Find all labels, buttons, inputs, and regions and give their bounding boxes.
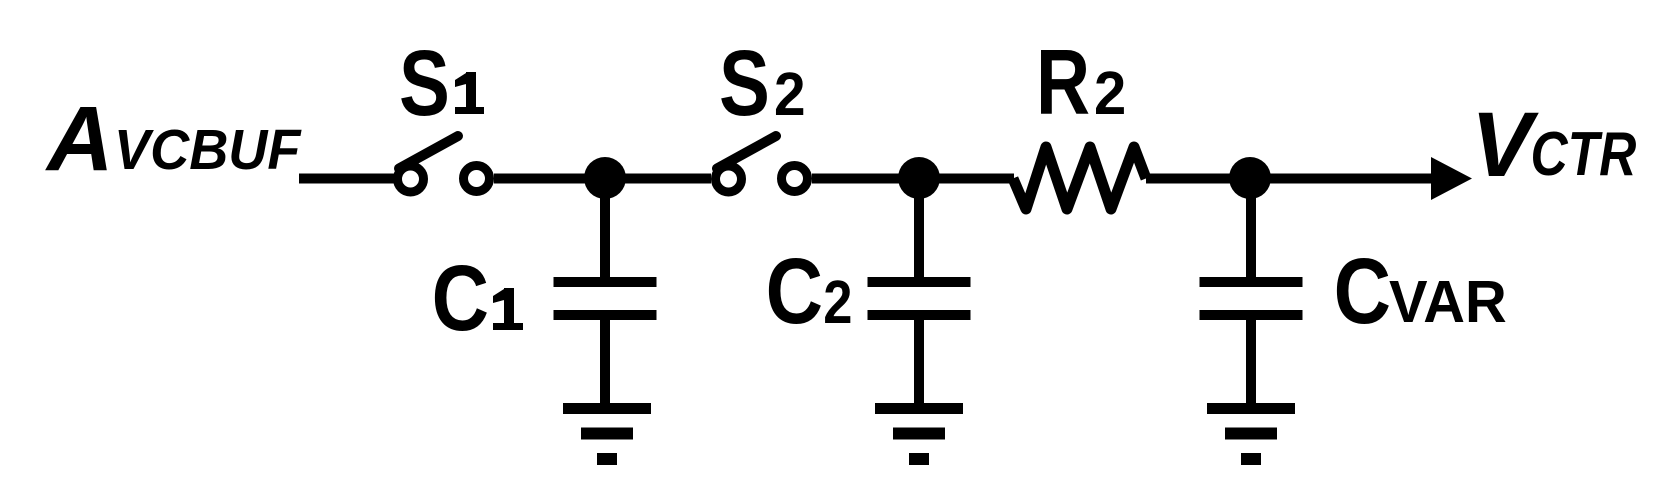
svg-text:2: 2 (823, 268, 852, 337)
node A_VCBUF label (45, 88, 302, 190)
wire node 3 down to capacitor CVAR (1246, 178, 1256, 279)
svg-text:A: A (45, 88, 113, 190)
wire from R2 to output arrow through node 3 (1146, 174, 1445, 184)
label CVAR (1334, 240, 1507, 343)
label S2 (719, 32, 806, 136)
svg-text:S: S (399, 32, 450, 136)
switch S2 (716, 136, 808, 192)
svg-text:C: C (432, 247, 489, 350)
label S1 (399, 32, 484, 136)
svg-text:VAR: VAR (1389, 269, 1507, 335)
svg-text:S: S (719, 32, 770, 136)
svg-text:C: C (1334, 240, 1391, 343)
svg-text:C: C (766, 240, 823, 343)
node 1 junction dot (584, 157, 626, 199)
output arrowhead (1431, 157, 1472, 200)
svg-text:V: V (1471, 94, 1539, 196)
svg-text:2: 2 (1094, 59, 1126, 128)
capacitor C2 (868, 282, 971, 409)
ground under CVAR (1207, 409, 1295, 460)
node 2 junction dot (898, 157, 940, 199)
capacitor CVAR (1200, 282, 1303, 409)
wire node 2 down to capacitor C2 (914, 178, 924, 279)
svg-text:VCBUF: VCBUF (114, 118, 302, 182)
wire from S2 to resistor R2 through node 2 (812, 174, 1014, 184)
ground under C2 (875, 409, 963, 460)
capacitor C1 (554, 282, 657, 409)
svg-text:CTR: CTR (1531, 120, 1637, 190)
resistor R2 (1013, 147, 1146, 209)
wire from S1 to switch S2 through node 1 (494, 174, 711, 184)
label C1 (432, 247, 523, 350)
label C2 (766, 240, 853, 343)
wire from AVCBUF to switch S1 (299, 174, 394, 184)
svg-text:2: 2 (774, 61, 806, 128)
ground under C1 (563, 409, 651, 460)
node V_CTR label (1471, 94, 1636, 196)
svg-text:R: R (1036, 30, 1090, 134)
switch S1 (398, 136, 490, 192)
label R2 (1036, 30, 1126, 134)
node 3 junction dot (1229, 157, 1271, 199)
wire node 1 down to capacitor C1 (600, 178, 610, 279)
